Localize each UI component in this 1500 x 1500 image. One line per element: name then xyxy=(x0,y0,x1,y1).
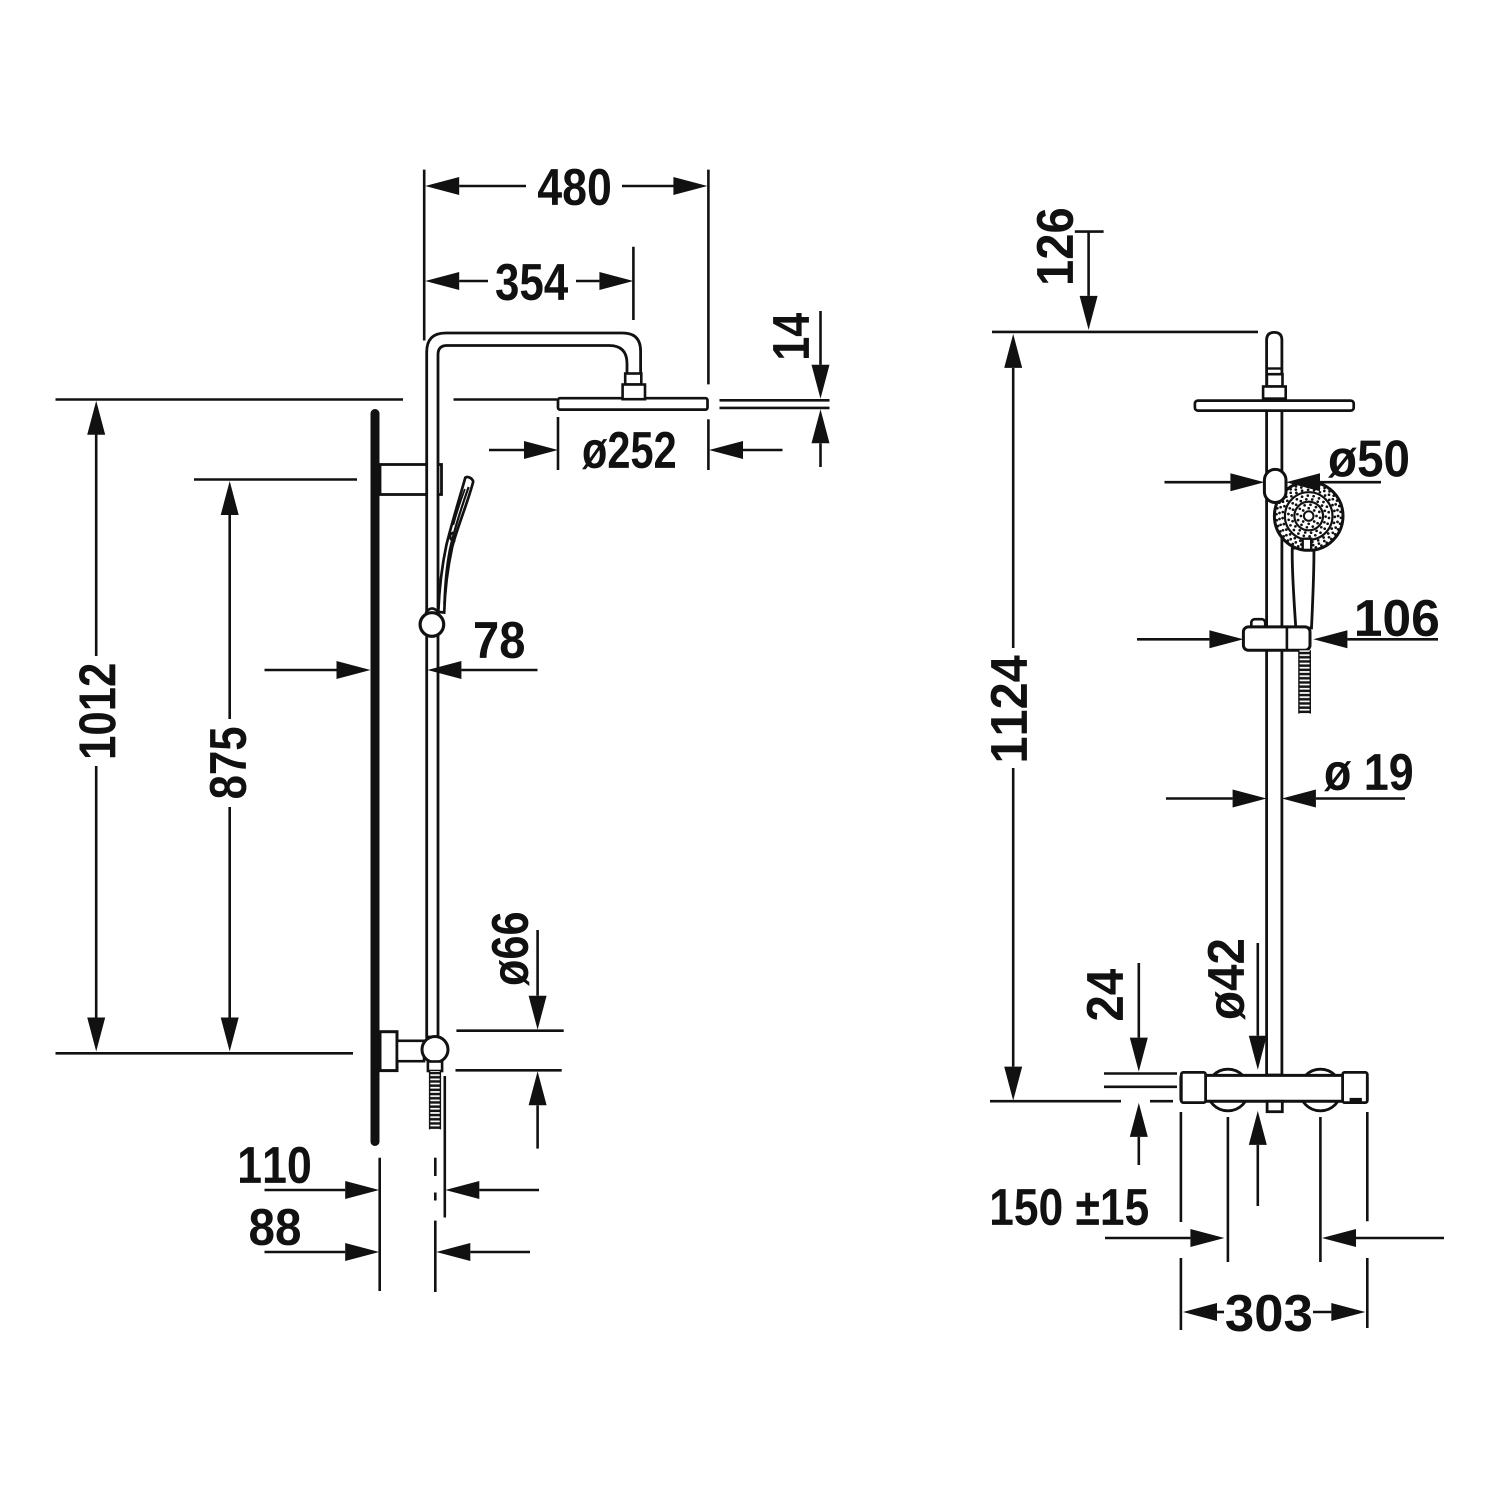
spray face rings xyxy=(1285,492,1333,540)
hand shower (side view) xyxy=(438,477,473,612)
shower head plate (side view) xyxy=(558,398,708,409)
dimension 78 xyxy=(265,669,337,672)
valve body xyxy=(1181,1075,1367,1101)
hose (side view) xyxy=(430,1071,441,1129)
holder knob (front) xyxy=(1264,469,1286,502)
wall (side view) xyxy=(371,409,380,1146)
lower horizontal pipe xyxy=(397,1041,424,1061)
dimension 110 xyxy=(265,1189,346,1192)
wall face extension (bottom) xyxy=(378,1158,381,1291)
riser pipe (front view) xyxy=(1267,332,1282,1075)
valve outlet xyxy=(1267,1101,1282,1111)
valve right knob xyxy=(1300,1069,1342,1111)
valve left knob xyxy=(1207,1069,1249,1111)
dimension 126 xyxy=(1075,230,1104,233)
bracket bump (front) xyxy=(1251,619,1265,631)
hand shower handle (front) xyxy=(1292,548,1314,628)
dimension 480 xyxy=(423,170,426,341)
extension lines below valve xyxy=(1180,1112,1183,1222)
slider knob (side) xyxy=(420,613,444,637)
valve right cap xyxy=(1343,1072,1368,1102)
top slider bracket (side) xyxy=(380,465,442,495)
dimension 1124 xyxy=(1004,334,1022,368)
arm nut lower xyxy=(623,385,645,400)
top reference line (front view) xyxy=(992,331,1258,334)
dimension diameter 66 xyxy=(456,1029,563,1032)
spray face outer circle xyxy=(1274,482,1343,551)
dimension 14 xyxy=(819,311,822,365)
holder clip arc above knob xyxy=(426,608,439,613)
valve cap mark xyxy=(1350,1098,1362,1103)
24 tick lines xyxy=(1104,1072,1177,1075)
wall reference line (front view) xyxy=(990,1100,1121,1103)
slider bracket (front) xyxy=(1243,627,1310,650)
lower ball joint xyxy=(422,1037,448,1063)
valve left cap xyxy=(1181,1072,1205,1102)
spray face notch xyxy=(1303,539,1312,550)
arm nut upper xyxy=(625,374,641,385)
dimension 88 xyxy=(265,1251,346,1254)
hose (front view) xyxy=(1299,650,1310,713)
centreline xyxy=(434,1158,437,1176)
dimension 303 xyxy=(1183,1303,1217,1321)
top reference line (left view) xyxy=(56,398,404,401)
shower arm and riser pipe xyxy=(427,333,641,1037)
dimension 150 plus-minus 15 xyxy=(1105,1237,1190,1240)
hand shower inner line xyxy=(444,487,468,604)
dimension 106 xyxy=(1137,638,1209,641)
dimension 354 xyxy=(632,247,635,320)
dimension 1012 xyxy=(87,401,105,435)
dimension 24 xyxy=(1138,963,1141,1038)
dimension 875 xyxy=(194,478,357,481)
bottom tick line (slider centre level) xyxy=(56,1052,354,1055)
dimension diameter 19 xyxy=(1166,797,1233,800)
head plate reference lines right (14 thickness) xyxy=(720,399,830,402)
dimension diameter 42 xyxy=(1257,943,1260,1036)
head disc (front view) xyxy=(1195,401,1354,411)
dimension diameter 252 xyxy=(557,417,560,470)
holder hook xyxy=(450,533,455,541)
hose edge extension xyxy=(443,1076,446,1218)
lower wall bracket xyxy=(380,1032,397,1071)
spray nozzle dots xyxy=(1275,482,1342,549)
hose nut xyxy=(428,1062,442,1072)
pipe nut lower (front) xyxy=(1263,387,1286,399)
pipe nut upper (front) xyxy=(1267,374,1283,386)
dimension diameter 50 xyxy=(1165,481,1231,484)
